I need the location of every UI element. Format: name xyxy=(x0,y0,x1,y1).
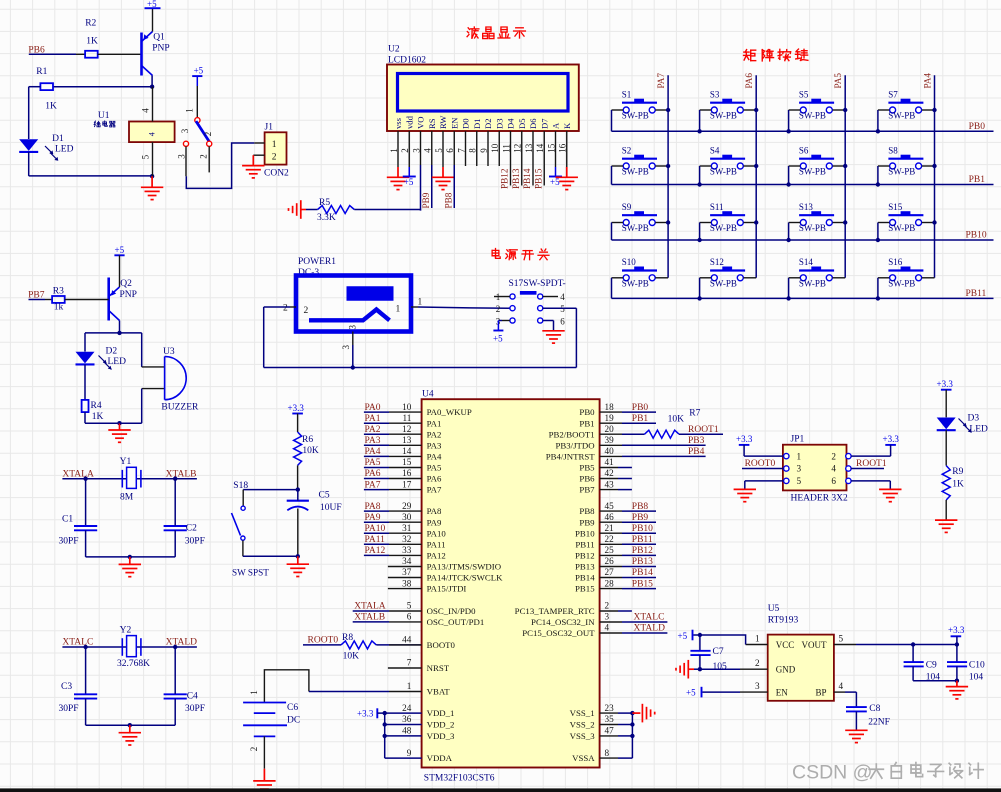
switch S17 designator xyxy=(509,279,566,289)
pin 4 (U5) xyxy=(834,681,857,692)
junction xyxy=(128,555,132,559)
power +5 xyxy=(549,167,562,187)
junction xyxy=(150,174,154,178)
svg-text:2: 2 xyxy=(199,154,209,159)
svg-text:1: 1 xyxy=(797,451,802,461)
svg-text:PA13/JTMS/SWDIO: PA13/JTMS/SWDIO xyxy=(427,562,501,572)
wire xyxy=(85,479,87,526)
svg-text:PB11: PB11 xyxy=(966,289,987,299)
svg-text:SW-PB: SW-PB xyxy=(710,167,737,177)
capacitor C10 xyxy=(947,645,985,683)
connector J1 xyxy=(264,122,289,178)
net label PA5 xyxy=(833,73,843,89)
net label PA2 xyxy=(365,425,381,435)
ground (Q2) xyxy=(108,423,130,442)
svg-text:PB12: PB12 xyxy=(575,550,595,560)
svg-text:10UF: 10UF xyxy=(320,503,342,513)
junction xyxy=(630,722,634,726)
junction xyxy=(932,220,936,224)
crystal Y1 xyxy=(120,457,141,502)
net label PB12 xyxy=(500,168,510,189)
switch S9 xyxy=(612,202,669,233)
wire xyxy=(354,210,420,211)
wire xyxy=(699,278,701,299)
svg-text:EN: EN xyxy=(449,117,459,129)
switch S15 xyxy=(878,202,935,233)
resistor R3 xyxy=(52,287,109,313)
net label PB6 xyxy=(28,45,45,55)
svg-text:D2: D2 xyxy=(483,118,493,129)
svg-text:PB3/JTDO: PB3/JTDO xyxy=(555,440,594,450)
svg-text:22NF: 22NF xyxy=(868,717,890,727)
svg-text:13: 13 xyxy=(402,435,412,445)
svg-text:1: 1 xyxy=(272,140,277,150)
svg-text:OSC_OUT/PD1: OSC_OUT/PD1 xyxy=(427,617,485,627)
junction xyxy=(697,182,701,186)
capacitor C1 xyxy=(59,514,98,546)
svg-text:PB3: PB3 xyxy=(688,436,705,446)
svg-text:1: 1 xyxy=(407,681,412,691)
junction xyxy=(843,220,847,224)
capacitor C7 xyxy=(690,635,727,672)
svg-text:39: 39 xyxy=(605,435,615,445)
net label PA3 xyxy=(365,436,381,446)
net label PB15 xyxy=(632,579,653,589)
svg-text:PB11: PB11 xyxy=(632,535,653,545)
power +5 (Q2) xyxy=(114,245,124,287)
svg-text:LED: LED xyxy=(55,145,74,155)
svg-text:4: 4 xyxy=(605,623,610,633)
switch S14 xyxy=(789,257,846,288)
svg-text:PB1: PB1 xyxy=(632,414,649,424)
pin 36 wire xyxy=(385,724,422,726)
svg-text:+5: +5 xyxy=(404,177,414,187)
svg-text:42: 42 xyxy=(605,468,615,478)
switch S17 actuator xyxy=(520,291,537,295)
svg-text:VDD_3: VDD_3 xyxy=(427,731,455,741)
svg-text:SW SPST: SW SPST xyxy=(232,568,269,578)
svg-text:ROOT0: ROOT0 xyxy=(745,459,776,469)
wire xyxy=(264,670,309,703)
pin 9 (VDDA) xyxy=(385,748,422,758)
wire xyxy=(418,307,510,308)
svg-text:NRST: NRST xyxy=(427,663,450,673)
svg-text:PB2/BOOT1: PB2/BOOT1 xyxy=(549,429,595,439)
ground (C10) xyxy=(946,681,968,699)
svg-text:C5: C5 xyxy=(319,491,330,501)
svg-text:D5: D5 xyxy=(517,118,527,129)
pin 29 wire xyxy=(364,501,422,511)
svg-text:RW: RW xyxy=(438,115,448,129)
pin 2 (vdd) LCD xyxy=(400,115,414,152)
svg-text:5: 5 xyxy=(407,601,412,611)
svg-text:S4: S4 xyxy=(710,145,720,155)
net label PA8 xyxy=(365,502,381,512)
svg-text:46: 46 xyxy=(605,512,615,522)
junction xyxy=(383,711,387,715)
svg-text:VBAT: VBAT xyxy=(427,687,451,697)
svg-text:3: 3 xyxy=(605,612,610,622)
svg-text:PA7: PA7 xyxy=(365,480,381,490)
pin 4 (RS) LCD xyxy=(423,118,437,153)
svg-text:PB9: PB9 xyxy=(421,192,431,208)
wire xyxy=(397,131,399,167)
junction xyxy=(698,633,702,637)
wire xyxy=(174,647,176,725)
wire xyxy=(264,307,290,368)
wire xyxy=(420,131,422,211)
wire xyxy=(120,389,165,424)
svg-text:SW-PB: SW-PB xyxy=(710,223,737,233)
pin 16 (K) LCD xyxy=(558,122,572,153)
power +5 (U5) xyxy=(678,630,700,641)
svg-text:43: 43 xyxy=(605,479,615,489)
wire xyxy=(86,699,176,726)
capacitor C2 xyxy=(164,523,205,546)
pin 23 wire xyxy=(600,703,633,713)
pin 3 (JP1) xyxy=(784,464,802,474)
wire xyxy=(788,278,790,299)
svg-text:PB4: PB4 xyxy=(688,447,705,457)
pin 37 stub xyxy=(388,567,422,577)
svg-text:K: K xyxy=(562,122,572,129)
junction xyxy=(630,711,634,715)
wire xyxy=(264,367,577,369)
svg-text:PA9: PA9 xyxy=(365,513,381,523)
ground xyxy=(387,167,409,190)
svg-text:16: 16 xyxy=(402,468,412,478)
ground (D3) xyxy=(935,520,957,532)
pin 1 (U5) xyxy=(746,634,768,645)
net label PB1 xyxy=(632,414,649,424)
svg-text:32.768K: 32.768K xyxy=(117,659,150,669)
contact 2 xyxy=(199,132,214,159)
svg-text:30PF: 30PF xyxy=(185,536,205,546)
net label XTALC (U4) xyxy=(634,613,665,623)
net label PA1 xyxy=(365,414,381,424)
contact 2 (S17) xyxy=(510,306,543,311)
ground xyxy=(556,167,578,190)
ground (U4 VSS) xyxy=(632,704,654,723)
wire xyxy=(745,481,784,489)
svg-text:PA1: PA1 xyxy=(427,418,442,428)
pin 40 wire xyxy=(600,446,706,456)
power +3.3 (R6) xyxy=(288,403,305,432)
wire xyxy=(543,131,545,186)
pin 1 (S17) xyxy=(494,292,510,302)
svg-text:XTALD: XTALD xyxy=(166,638,198,648)
svg-text:PA2: PA2 xyxy=(365,425,381,435)
crystal Y2 xyxy=(117,626,150,670)
resistor R2 xyxy=(85,19,141,58)
contact 1 xyxy=(185,108,200,123)
svg-text:XTALC: XTALC xyxy=(62,638,93,648)
pin 13 (D6) LCD xyxy=(524,118,538,153)
svg-text:PA10: PA10 xyxy=(365,524,386,534)
pin 46 wire xyxy=(600,512,656,522)
svg-text:PA4: PA4 xyxy=(427,451,442,461)
svg-text:R3: R3 xyxy=(53,287,64,297)
VSS bus wire xyxy=(631,713,633,758)
svg-text:PB15: PB15 xyxy=(533,168,543,189)
svg-text:3: 3 xyxy=(180,128,190,133)
svg-text:vss: vss xyxy=(393,117,403,129)
svg-text:A: A xyxy=(551,122,561,129)
VDD bus wire xyxy=(384,713,386,758)
net label PB9 xyxy=(421,192,431,208)
svg-text:C6: C6 xyxy=(287,703,298,713)
pin 4 wire xyxy=(600,623,668,633)
pin 9 (D2) LCD xyxy=(479,118,493,152)
junction xyxy=(83,477,177,481)
svg-text:2: 2 xyxy=(283,304,288,314)
svg-text:CSDN @: CSDN @ xyxy=(792,761,872,783)
ground (C8) xyxy=(845,730,867,742)
bottom frame bar xyxy=(0,788,1001,792)
svg-text:LED: LED xyxy=(108,357,127,367)
power +3.3 (JP1 left) xyxy=(736,434,753,456)
wire xyxy=(85,647,87,694)
junction xyxy=(630,734,634,738)
svg-text:30: 30 xyxy=(402,512,412,522)
svg-text:BOOT0: BOOT0 xyxy=(427,640,456,650)
ground (C5) xyxy=(287,556,309,576)
svg-text:1: 1 xyxy=(185,108,195,113)
svg-text:37: 37 xyxy=(402,567,412,577)
junction xyxy=(697,296,701,300)
ground xyxy=(141,176,163,199)
svg-text:SW-PB: SW-PB xyxy=(622,223,649,233)
svg-text:12: 12 xyxy=(402,424,412,434)
svg-text:PA0_WKUP: PA0_WKUP xyxy=(427,407,472,417)
pin 12 (D5) LCD xyxy=(513,118,527,152)
row wire PB0 xyxy=(612,130,994,132)
pin 38 stub xyxy=(388,578,422,588)
svg-text:24: 24 xyxy=(402,703,412,713)
wire xyxy=(744,455,784,457)
pin 10 (D3) LCD xyxy=(490,118,504,152)
junction xyxy=(697,238,701,242)
resistor R7 xyxy=(645,408,701,438)
svg-text:S1: S1 xyxy=(622,89,632,99)
wire xyxy=(431,131,433,208)
wire xyxy=(877,110,879,131)
LED D1 xyxy=(19,134,73,161)
svg-text:1K: 1K xyxy=(952,480,964,490)
junction xyxy=(786,129,790,133)
svg-text:PA11: PA11 xyxy=(427,539,446,549)
wire xyxy=(297,490,299,557)
wire xyxy=(699,166,701,185)
row wire PB11 xyxy=(612,297,994,299)
svg-text:PA12: PA12 xyxy=(427,550,446,560)
svg-text:30PF: 30PF xyxy=(185,704,205,714)
svg-text:S11: S11 xyxy=(710,202,724,212)
svg-text:PB7: PB7 xyxy=(579,485,595,495)
net label PB1 xyxy=(969,175,986,185)
svg-text:PB6: PB6 xyxy=(579,474,595,484)
svg-text:S13: S13 xyxy=(799,202,814,212)
svg-text:PB8: PB8 xyxy=(579,506,595,516)
junction xyxy=(698,667,702,671)
svg-text:+3.3: +3.3 xyxy=(736,434,753,444)
svg-text:1: 1 xyxy=(755,634,760,644)
switch S18 designator xyxy=(233,481,248,491)
svg-text:OSC_IN/PD0: OSC_IN/PD0 xyxy=(427,606,476,616)
svg-text:4: 4 xyxy=(831,464,836,474)
svg-text:2: 2 xyxy=(755,658,760,668)
junction xyxy=(932,164,936,168)
svg-text:DC: DC xyxy=(287,716,300,726)
wire xyxy=(945,430,947,465)
ground (C6) xyxy=(253,769,275,792)
power +5 (S17) xyxy=(493,321,503,344)
svg-text:Q1: Q1 xyxy=(153,33,165,43)
switch S3 xyxy=(700,89,757,120)
svg-text:Q2: Q2 xyxy=(120,279,132,289)
pin 1 (POWER1) xyxy=(411,297,423,307)
svg-text:41: 41 xyxy=(605,457,615,467)
svg-text:S9: S9 xyxy=(622,202,632,212)
svg-text:GND: GND xyxy=(776,665,796,675)
svg-text:S15: S15 xyxy=(888,202,903,212)
junction xyxy=(843,108,847,112)
IC U4 designator xyxy=(422,389,434,399)
svg-text:28: 28 xyxy=(605,578,615,588)
svg-text:PA10: PA10 xyxy=(427,528,447,538)
svg-text:R2: R2 xyxy=(85,19,96,29)
svg-text:PB9: PB9 xyxy=(579,517,595,527)
svg-text:BP: BP xyxy=(815,687,826,697)
power +3.3 (D3) xyxy=(937,379,954,417)
svg-text:PA6: PA6 xyxy=(744,73,754,89)
wire xyxy=(855,711,857,730)
svg-text:PB15: PB15 xyxy=(575,584,595,594)
svg-text:SW-PB: SW-PB xyxy=(888,111,915,121)
svg-text:D4: D4 xyxy=(506,118,516,129)
IC U4 pin names xyxy=(427,407,596,763)
svg-text:S12: S12 xyxy=(710,257,724,267)
wire xyxy=(877,223,879,241)
junction xyxy=(351,365,355,369)
wire xyxy=(679,433,723,435)
contact 3 (S17) xyxy=(510,318,543,323)
net label PB3 xyxy=(688,436,705,446)
pin 41 stub xyxy=(600,457,632,467)
pin 6 (JP1) xyxy=(831,476,851,486)
wire xyxy=(85,412,120,423)
net label PB8 xyxy=(632,502,649,512)
switch S10 xyxy=(612,257,669,288)
svg-text:104: 104 xyxy=(969,672,984,682)
net label PB0 xyxy=(969,122,986,132)
capacitor C8 xyxy=(846,704,890,727)
svg-text:PB0: PB0 xyxy=(632,403,649,413)
svg-text:48: 48 xyxy=(402,726,412,736)
svg-text:+3.3: +3.3 xyxy=(288,403,305,413)
wire xyxy=(29,87,41,139)
svg-text:C4: C4 xyxy=(187,691,198,701)
pin 45 wire xyxy=(600,501,656,511)
wire xyxy=(465,131,467,166)
svg-text:SW-PB: SW-PB xyxy=(799,167,826,177)
wire xyxy=(306,209,318,211)
net label PA9 xyxy=(365,513,381,523)
svg-text:+5: +5 xyxy=(194,65,204,75)
pin 18 wire xyxy=(600,402,656,412)
net label PA6 xyxy=(744,73,754,89)
svg-text:PB14: PB14 xyxy=(632,568,653,578)
LED D3 xyxy=(937,414,988,435)
switch S13 xyxy=(789,202,846,233)
net label PB10 xyxy=(632,524,653,534)
svg-text:SW-PB: SW-PB xyxy=(799,279,826,289)
wire xyxy=(700,635,746,645)
power ground (R5) xyxy=(289,200,307,219)
net label PA7 xyxy=(656,73,666,89)
IC U4 part number xyxy=(424,774,495,784)
svg-text:105: 105 xyxy=(713,662,728,672)
net label PB11 xyxy=(966,289,987,299)
svg-text:30PF: 30PF xyxy=(59,536,79,546)
pin 42 stub xyxy=(600,468,632,478)
svg-text:2: 2 xyxy=(831,451,836,461)
wire xyxy=(377,712,421,714)
svg-text:D2: D2 xyxy=(106,346,118,356)
svg-text:R7: R7 xyxy=(689,408,700,418)
pin 2 (POWER1) xyxy=(283,304,296,314)
wire xyxy=(945,500,947,520)
svg-text:PNP: PNP xyxy=(152,44,169,54)
junction xyxy=(876,129,880,133)
svg-text:PB14: PB14 xyxy=(575,573,595,583)
svg-text:PA4: PA4 xyxy=(365,447,381,457)
net label PB10 xyxy=(966,231,987,241)
ground (JP1 pin5) xyxy=(734,489,756,501)
resistor R9 xyxy=(942,466,964,500)
svg-text:XTALA: XTALA xyxy=(354,602,386,612)
svg-text:PB11: PB11 xyxy=(575,539,594,549)
svg-text:S8: S8 xyxy=(888,145,898,155)
svg-text:S14: S14 xyxy=(799,257,814,267)
title 矩阵按键 xyxy=(744,49,808,61)
pin 30 wire xyxy=(364,512,422,522)
wire xyxy=(243,490,298,506)
pin 19 wire xyxy=(600,413,656,423)
pin 26 wire xyxy=(600,556,656,566)
ground (C7) xyxy=(676,660,694,679)
title 液晶显示 xyxy=(467,27,525,39)
net label PB4 xyxy=(688,447,705,457)
junction xyxy=(786,182,790,186)
svg-text:PA2: PA2 xyxy=(427,429,442,439)
wire xyxy=(376,644,421,646)
wire xyxy=(543,308,577,367)
svg-text:1: 1 xyxy=(418,297,423,307)
capacitor C4 xyxy=(164,691,205,714)
junction xyxy=(786,296,790,300)
svg-text:38: 38 xyxy=(402,578,412,588)
pin 5 (relay) xyxy=(141,142,153,176)
svg-text:VSS_3: VSS_3 xyxy=(570,731,596,741)
net label PB9 xyxy=(632,513,649,523)
ground xyxy=(432,167,454,190)
svg-text:C9: C9 xyxy=(926,660,937,670)
svg-text:C1: C1 xyxy=(62,514,73,524)
svg-text:ROOT1: ROOT1 xyxy=(856,459,887,469)
svg-text:S10: S10 xyxy=(622,257,637,267)
wire xyxy=(243,540,298,556)
